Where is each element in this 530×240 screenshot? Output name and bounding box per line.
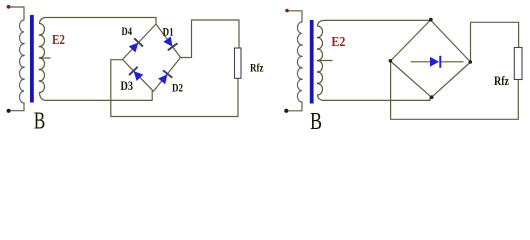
svg-text:D2: D2 (172, 80, 183, 94)
svg-text:B: B (310, 108, 322, 133)
svg-text:D3: D3 (121, 79, 134, 93)
svg-text:Rfz: Rfz (494, 74, 509, 88)
svg-text:B: B (34, 108, 46, 133)
svg-text:D1: D1 (163, 24, 174, 38)
svg-text:D4: D4 (122, 24, 133, 38)
svg-text:E2: E2 (52, 33, 65, 48)
svg-text:E2: E2 (331, 35, 345, 50)
svg-text:Rfz: Rfz (250, 63, 264, 75)
